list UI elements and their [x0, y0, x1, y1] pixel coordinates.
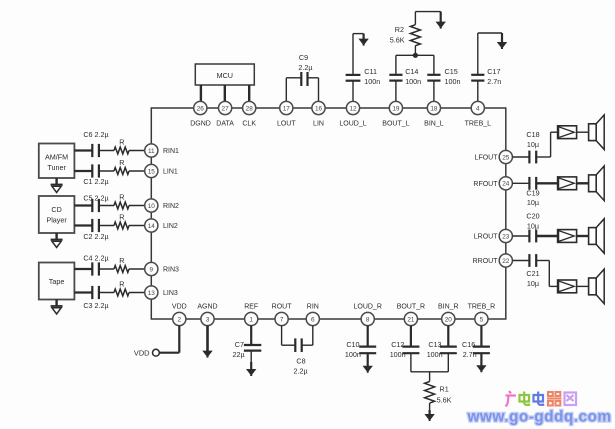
wire C12 down [410, 353, 412, 372]
pin 8 LOUD_R [361, 312, 374, 325]
wire [551, 131, 558, 133]
pin 24 RFOUT [499, 177, 512, 190]
svg-text:C20: C20 [526, 212, 539, 221]
svg-text:C4 2.2µ: C4 2.2µ [83, 254, 108, 263]
wire [99, 150, 114, 152]
wire pin1 to C7 [250, 326, 252, 345]
svg-text:VDD: VDD [172, 304, 187, 311]
wire pin23 out [512, 235, 529, 237]
capacitor C3 [83, 286, 108, 310]
svg-text:2.7n: 2.7n [487, 77, 501, 86]
svg-text:ROUT: ROUT [272, 304, 293, 311]
svg-text:LOUD_R: LOUD_R [353, 304, 381, 311]
svg-text:CD: CD [51, 205, 61, 214]
pin 20 BIN_R [442, 312, 455, 325]
svg-text:C14: C14 [405, 67, 418, 76]
wire [536, 182, 557, 184]
ground [55, 178, 57, 185]
pin 7 ROUT [275, 312, 288, 325]
terminal VDD [134, 349, 159, 358]
capacitor C12 [390, 340, 420, 359]
svg-text:LROUT: LROUT [474, 234, 498, 241]
svg-text:13: 13 [148, 290, 156, 297]
pin 11 RIN1 [145, 144, 158, 157]
svg-text:4: 4 [476, 105, 480, 112]
wire C8 left leg [281, 326, 283, 346]
svg-text:5: 5 [480, 316, 484, 323]
wire [99, 268, 114, 270]
wire pin5 down [480, 326, 482, 347]
wire pin4 riser [477, 81, 479, 102]
svg-text:BOUT_R: BOUT_R [397, 304, 425, 311]
svg-text:C1 2.2µ: C1 2.2µ [83, 177, 108, 186]
wire pin19 riser [395, 81, 397, 102]
wire [536, 235, 557, 237]
wire C14 up [395, 55, 397, 74]
wire C6 input [74, 149, 92, 151]
svg-text:LOUT: LOUT [277, 120, 296, 127]
capacitor C21 [526, 254, 539, 288]
svg-text:C9: C9 [299, 53, 308, 62]
wire R1 down [429, 403, 431, 413]
svg-text:VDD: VDD [134, 349, 150, 358]
ground [429, 410, 431, 417]
svg-text:DGND: DGND [190, 120, 211, 127]
wire [99, 225, 114, 227]
wire pin22 out [512, 260, 529, 262]
svg-text:C13: C13 [428, 340, 441, 349]
svg-text:2.2µ: 2.2µ [294, 366, 308, 375]
capacitor C20 [526, 212, 539, 243]
svg-text:C11: C11 [364, 67, 377, 76]
wire jog down [536, 260, 549, 262]
capacitor C11 [346, 67, 381, 86]
svg-text:R: R [119, 256, 124, 265]
svg-text:10µ: 10µ [527, 279, 539, 288]
svg-text:CLK: CLK [242, 120, 256, 127]
pin 28 [243, 101, 256, 114]
svg-text:17: 17 [283, 105, 291, 112]
wire pin24 out [512, 182, 529, 184]
wire [99, 292, 114, 294]
capacitor C2 [83, 219, 108, 241]
capacitor C15 [427, 67, 460, 86]
wire [577, 285, 589, 287]
wire [129, 225, 145, 227]
capacitor C5 [83, 194, 108, 213]
svg-text:LIN1: LIN1 [163, 169, 178, 176]
svg-text:18: 18 [430, 105, 438, 112]
pin 25 LFOUT [499, 150, 512, 163]
wire C17 to ground [477, 33, 479, 74]
ground [480, 353, 482, 368]
wire C13 down [447, 353, 449, 372]
svg-text:1: 1 [249, 316, 253, 323]
pin 19 [389, 101, 402, 114]
svg-text:6: 6 [311, 316, 315, 323]
ground [367, 353, 369, 369]
wire pin18 riser [433, 81, 435, 102]
wire C15 up [433, 55, 435, 74]
svg-text:LIN3: LIN3 [163, 290, 178, 297]
svg-text:C18: C18 [526, 130, 539, 139]
svg-text:10µ: 10µ [527, 221, 539, 230]
wire pin2 VDD [178, 326, 180, 353]
speaker [589, 269, 605, 304]
svg-text:10µ: 10µ [527, 140, 539, 149]
svg-text:19: 19 [392, 105, 400, 112]
wire pin21 down [410, 326, 412, 347]
resistor R [114, 158, 129, 174]
ground [55, 300, 57, 307]
IC U1 body [151, 108, 506, 319]
svg-text:RIN3: RIN3 [163, 267, 179, 274]
wire pin8 down [367, 326, 369, 347]
svg-text:26: 26 [197, 105, 205, 112]
wire [99, 170, 114, 172]
svg-text:100n: 100n [364, 77, 380, 86]
resistor R [114, 193, 129, 209]
wire MCU to pin 27 [224, 85, 226, 102]
pin 17 [280, 101, 293, 114]
svg-text:23: 23 [502, 233, 510, 240]
capacitor C19 [526, 177, 539, 207]
capacitor C9 [298, 53, 312, 86]
Tape box [39, 263, 75, 300]
wire pin25 out [512, 156, 529, 158]
pin 4 [471, 101, 484, 114]
svg-text:C10: C10 [346, 340, 359, 349]
svg-text:Player: Player [46, 216, 67, 225]
svg-text:2: 2 [178, 316, 182, 323]
speaker [589, 166, 605, 201]
pin 23 LROUT [499, 229, 512, 242]
pin 12 [346, 101, 359, 114]
CD Player box [39, 196, 75, 233]
svg-text:100n: 100n [390, 350, 406, 359]
wire bus C14-C15 [396, 54, 434, 56]
svg-text:DATA: DATA [216, 120, 234, 127]
svg-text:7: 7 [280, 316, 284, 323]
svg-text:16: 16 [315, 105, 323, 112]
capacitor C18 [526, 130, 539, 163]
pin 21 BOUT_R [404, 312, 417, 325]
resistor R1 [425, 372, 452, 405]
wire MCU to pin 28 [248, 85, 250, 102]
resistor R [114, 213, 129, 229]
wire [577, 235, 589, 237]
svg-text:AM/FM: AM/FM [45, 153, 68, 162]
pin 6 RIN [306, 312, 319, 325]
speaker [589, 115, 605, 150]
speaker [589, 219, 605, 254]
AM/FM Tuner box [39, 144, 75, 179]
capacitor C17 [471, 67, 501, 86]
svg-text:R: R [119, 280, 124, 289]
pin 27 [219, 101, 232, 114]
svg-text:LFOUT: LFOUT [475, 155, 499, 162]
svg-text:100n: 100n [427, 350, 443, 359]
svg-text:C12: C12 [391, 340, 404, 349]
svg-text:C7: C7 [235, 340, 244, 349]
svg-text:REF: REF [244, 304, 258, 311]
wire [129, 268, 145, 270]
wire [549, 285, 557, 287]
pin 3 AGND [201, 312, 214, 325]
svg-text:RIN1: RIN1 [163, 148, 179, 155]
svg-text:LOUD_L: LOUD_L [339, 120, 366, 127]
svg-text:RIN: RIN [307, 304, 319, 311]
wire [129, 170, 145, 172]
svg-text:21: 21 [407, 316, 415, 323]
wire C4 input [74, 268, 92, 270]
wire C9 right leg [318, 78, 320, 102]
svg-text:BOUT_L: BOUT_L [382, 120, 409, 127]
svg-text:TREB_R: TREB_R [468, 304, 496, 311]
svg-text:C19: C19 [526, 188, 539, 197]
pin 13 LIN3 [145, 286, 158, 299]
pin 16 [312, 101, 325, 114]
node R2 junction [413, 53, 418, 58]
svg-text:MCU: MCU [217, 71, 233, 80]
svg-text:12: 12 [349, 105, 357, 112]
svg-text:Tuner: Tuner [47, 163, 66, 172]
wire C3 input [74, 291, 92, 293]
svg-text:2.2µ: 2.2µ [298, 63, 312, 72]
svg-text:100n: 100n [405, 77, 421, 86]
wire C11 to ground [352, 34, 354, 75]
wire R2 to ground [414, 12, 416, 25]
amplifier [558, 177, 577, 190]
pin 26 [194, 101, 207, 114]
svg-text:LIN2: LIN2 [163, 223, 178, 230]
ground [55, 233, 57, 240]
svg-text:TREB_L: TREB_L [465, 120, 492, 127]
capacitor C10 [345, 340, 376, 359]
capacitor C4 [83, 254, 108, 276]
pin 22 RROUT [499, 254, 512, 267]
wire C1 input [74, 170, 92, 172]
svg-text:5.6K: 5.6K [390, 36, 405, 45]
svg-text:Tape: Tape [49, 277, 65, 286]
svg-text:RFOUT: RFOUT [473, 181, 498, 188]
wire jog up [536, 156, 550, 158]
wire C5 input [74, 204, 92, 206]
wire MCU to pin 26 [200, 85, 202, 102]
svg-text:10µ: 10µ [527, 198, 539, 207]
wire C9 left leg [285, 78, 287, 102]
svg-text:C6 2.2µ: C6 2.2µ [83, 130, 108, 139]
svg-text:28: 28 [246, 105, 254, 112]
wire [129, 205, 145, 207]
svg-text:22µ: 22µ [232, 350, 244, 359]
wire [129, 150, 145, 152]
capacitor C7 [232, 340, 261, 359]
svg-text:C17: C17 [487, 67, 500, 76]
wire pin20 down [447, 326, 449, 347]
svg-text:RROUT: RROUT [473, 258, 499, 265]
svg-text:BIN_R: BIN_R [438, 304, 459, 311]
wire [129, 292, 145, 294]
svg-text:R: R [119, 213, 124, 222]
pin 9 RIN3 [145, 262, 158, 275]
svg-text:100n: 100n [345, 350, 361, 359]
svg-text:8: 8 [366, 316, 370, 323]
svg-text:15: 15 [148, 168, 156, 175]
pin 2 VDD [173, 312, 186, 325]
pin 10 RIN2 [145, 199, 158, 212]
svg-text:C16: C16 [462, 340, 475, 349]
ground AGND [206, 326, 209, 354]
MCU box [195, 64, 254, 85]
capacitor C8 [294, 338, 308, 375]
svg-text:AGND: AGND [197, 304, 217, 311]
resistor R [114, 256, 129, 272]
svg-text:R: R [119, 158, 124, 167]
svg-text:2.7n: 2.7n [463, 350, 477, 359]
svg-text:10: 10 [148, 203, 156, 210]
ground [363, 34, 365, 42]
wire C7 down [250, 351, 252, 366]
capacitor C6 [83, 130, 108, 157]
wire [577, 182, 589, 184]
svg-text:14: 14 [148, 223, 156, 230]
svg-text:100n: 100n [445, 77, 461, 86]
watermark logo 广电电器网 [506, 391, 577, 407]
capacitor C1 [83, 164, 108, 186]
svg-text:3: 3 [206, 316, 210, 323]
wire [99, 205, 114, 207]
svg-text:22: 22 [502, 258, 510, 265]
svg-text:5.6K: 5.6K [437, 395, 452, 404]
svg-text:RIN2: RIN2 [163, 203, 179, 210]
resistor R2 [390, 25, 421, 56]
svg-text:C15: C15 [445, 67, 458, 76]
capacitor C14 [389, 67, 421, 86]
amplifier [558, 126, 577, 139]
wire C9 top right [308, 77, 319, 79]
wire C9 top left [286, 77, 301, 79]
ground [250, 362, 252, 372]
svg-text:R: R [119, 138, 124, 147]
svg-text:C2 2.2µ: C2 2.2µ [83, 232, 108, 241]
wire bus C12-C13 [411, 371, 448, 373]
svg-text:C3 2.2µ: C3 2.2µ [83, 301, 108, 310]
ground [501, 33, 503, 45]
svg-text:C8: C8 [296, 357, 305, 366]
resistor R [114, 138, 129, 154]
pin 5 TREB_R [475, 312, 488, 325]
svg-text:BIN_L: BIN_L [424, 120, 444, 127]
svg-text:www.go-gddq.com: www.go-gddq.com [466, 409, 611, 426]
svg-text:25: 25 [502, 154, 510, 161]
amplifier [558, 230, 577, 243]
wire C2 input [74, 224, 92, 226]
ground [440, 12, 442, 25]
capacitor C13 [427, 340, 457, 359]
wire [577, 131, 589, 133]
wire pin12 riser [352, 81, 354, 102]
svg-text:R1: R1 [440, 384, 449, 393]
svg-text:27: 27 [222, 105, 230, 112]
svg-text:C21: C21 [526, 269, 539, 278]
svg-text:LIN: LIN [313, 120, 324, 127]
amplifier [558, 280, 577, 293]
svg-text:C5 2.2µ: C5 2.2µ [83, 194, 108, 203]
svg-text:24: 24 [502, 181, 510, 188]
svg-text:R: R [119, 193, 124, 202]
svg-text:R2: R2 [395, 25, 404, 34]
pin 1 REF [245, 312, 258, 325]
svg-text:11: 11 [148, 148, 155, 155]
svg-text:9: 9 [150, 266, 154, 273]
pin 18 [427, 101, 440, 114]
svg-text:20: 20 [445, 316, 453, 323]
pin 15 LIN1 [145, 164, 158, 177]
wire C8 right leg [312, 326, 314, 346]
pin 14 LIN2 [145, 219, 158, 232]
resistor R [114, 280, 129, 296]
capacitor C16 [462, 340, 490, 359]
